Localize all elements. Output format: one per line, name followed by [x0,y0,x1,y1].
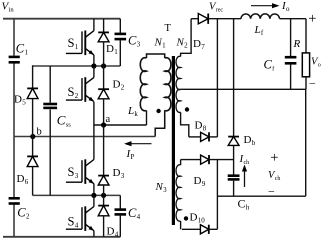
wire left bus lower (C2 branch) [13,137,15,198]
wire D6 top lead [32,137,34,157]
transistor S3 (IGBT) [81,160,83,182]
wire Css top lead [49,66,51,103]
current arrow Ip [131,143,152,145]
wire D6 bottom lead [32,167,34,196]
wire D10 anode [182,228,201,230]
wire D8 cathode [209,136,217,138]
wire S4 emitter to bottom rail [93,231,95,237]
wire S2 collector lead [93,66,95,77]
svg-text:+: + [308,11,316,27]
wire output right corner [305,19,307,53]
diode Db [228,136,239,138]
svg-text:T: T [165,23,172,34]
wire D9 row to D10 vertical [216,160,218,230]
wire left bus upper (C1 branch) [13,19,15,56]
wire D9 cathode [209,159,234,161]
wire R bottom lead [305,77,307,90]
wire clamp upper row [33,65,121,67]
winding N1 primary coil [165,58,171,111]
diode D7 [198,14,208,24]
wire S1 emitter to row1 [93,55,95,66]
wire N1 bottom lead [164,111,166,129]
wire D5 top lead [32,65,34,88]
wire Db anode to Ch [233,145,235,175]
svg-text:R: R [293,38,301,50]
wire Ch bottom lead [233,181,235,197]
wire D10 cathode [209,228,218,230]
transformer core [172,56,175,225]
wire C3 bottom lead [119,40,121,66]
wire D8 anode [189,136,201,138]
wire Lk top [147,54,165,58]
wire D1 top lead [103,19,105,33]
junction dot row3 left [91,193,96,198]
wire Cf bottom lead [290,65,292,90]
wire N3 top lead [180,160,182,165]
wire S1 collector lead [93,19,95,31]
wire top input rail Vin [3,18,120,20]
wire output return (N2 tap) [181,88,306,90]
wire D1 bottom lead [103,42,105,66]
wire S4 collector lead [93,195,95,206]
transistor S4 (IGBT) [81,207,83,229]
wire Lf to output plus [280,18,307,20]
diode D4 [98,205,109,207]
wire D4 bottom lead [103,216,105,237]
inductor Lk coil [140,58,146,111]
wire Css bottom lead [49,110,51,196]
wire D4 top lead [103,195,105,205]
diode D9 [201,155,209,164]
polarity dot N3 [184,216,188,220]
wire N2 top lead to D7 [181,19,192,57]
wire D3 top lead [103,125,105,175]
wire S3 emitter to row3 [93,184,95,196]
wire Vrec node to Lf [208,18,241,20]
diode D6 [27,155,38,157]
diode D2 [98,88,109,90]
wire D7 anode [191,18,198,20]
wire D2 top lead [103,66,105,89]
node b junction dot [30,134,35,139]
winding N2 secondary coil upper part [176,56,181,89]
wire clamp lower row [33,194,121,196]
wire D3 bottom lead [103,185,105,195]
svg-text:a: a [106,114,111,125]
wire Vrec to D8 branch vertical [216,19,218,137]
resistor R [302,53,309,77]
winding N3 secondary coil [176,165,181,221]
diode D10 [200,225,208,234]
transistor S1 (IGBT) [81,31,83,53]
capacitor Ch [228,174,240,177]
node b wire [14,136,155,138]
inductor Lf coil [241,14,280,19]
wire N2 bottom to D8 [181,112,189,137]
svg-text:−: − [268,185,275,199]
wire S2 emitter to node a [93,102,95,125]
capacitor Cf [285,56,297,59]
capacitor Css [43,103,57,106]
svg-text:b: b [37,127,42,138]
wire D5 bottom lead [32,99,34,137]
polarity dot N1 [156,109,160,113]
svg-text:−: − [309,77,316,91]
transistor S2 (IGBT) [81,78,83,100]
wire node a to Lk bottom [146,111,148,126]
capacitor C1 [9,56,20,59]
diode D5 [27,87,38,89]
wire D2 bottom lead [103,99,105,125]
node a wire [94,124,147,126]
junction dot node a [101,122,106,127]
wire C3 top lead [119,19,121,33]
current arrow Io [251,5,273,7]
wire bottom input rail [3,236,120,238]
wire S3 collector lead [93,125,95,160]
diode D1 [98,31,109,33]
winding N2 secondary coil lower part [176,89,181,112]
wire Cf top lead [290,19,292,56]
polarity dot N2 [185,107,189,111]
wire Vrec to Db branch vertical [233,19,235,137]
wire b to primary bottom step [155,110,165,136]
wire Vch right border [305,89,307,196]
wire D9 anode [181,159,201,161]
svg-text:+: + [270,150,278,166]
wire C4 top lead [119,195,121,209]
diode D8 [201,132,209,141]
wire Vch bottom rail [217,195,305,197]
junction dot row1 left [91,63,96,68]
wire N3 bottom lead [180,221,182,229]
diode D3 [98,175,109,177]
capacitor C4 [115,208,127,211]
junction dot row3 right [101,193,106,198]
capacitor C2 [9,197,20,200]
capacitor C3 [115,33,127,36]
wire C4 bottom lead [119,216,121,237]
junction dot row1 right [101,63,106,68]
current arrow Ich [244,171,246,188]
